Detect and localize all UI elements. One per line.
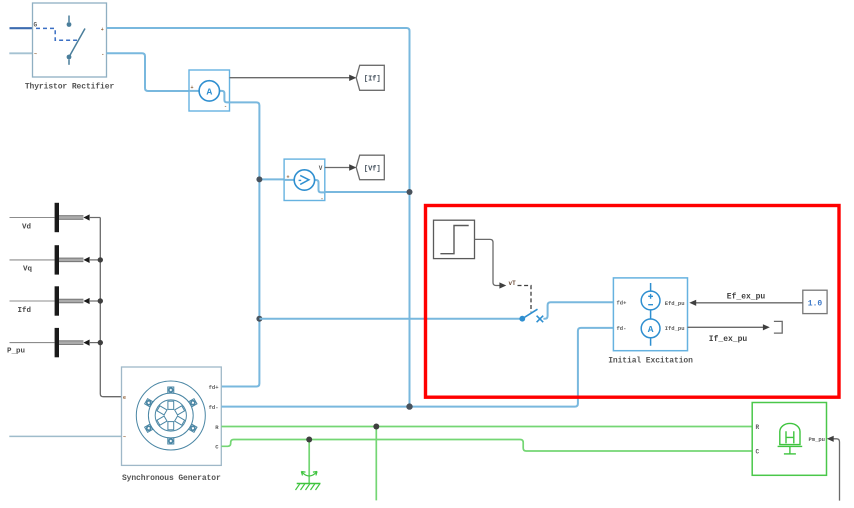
- node: C wire junction: [306, 437, 312, 443]
- node: R wire junction: [373, 424, 379, 430]
- wire: dashed control into breaker: [518, 286, 532, 313]
- initial excitation block: [613, 278, 687, 351]
- svg-text:-: -: [224, 104, 227, 110]
- wire: measurement bus vertical to generator e port: [100, 218, 121, 397]
- node: voltmeter to DC bus junction: [407, 189, 413, 195]
- wire: branch to voltmeter input: [259, 178, 284, 180]
- node: Ifd tap junction: [98, 298, 103, 303]
- label: Synchronous Generator: [122, 474, 221, 483]
- goto tag Vf: [356, 155, 384, 180]
- mechanical rotational reference ground: [296, 472, 321, 491]
- wire: thyristor + output to vertical bus node: [107, 28, 410, 407]
- wire: voltmeter - output to vertical bus node: [325, 191, 410, 193]
- wire: breaker to initial excitation fd+: [543, 302, 613, 318]
- wire: ammeter - output down to voltmeter branch: [221, 102, 259, 386]
- wire: AC input to Thyristor Rectifier: [9, 52, 32, 54]
- svg-text:Ifd: Ifd: [18, 307, 32, 315]
- constant block 1.0: [803, 290, 827, 313]
- label: Thyristor Rectifier: [25, 83, 115, 92]
- wire: generator C port to turbine C: [221, 440, 752, 452]
- bus tap P_pu: [7, 328, 100, 357]
- svg-text:Vq: Vq: [23, 266, 32, 274]
- svg-text:fd-: fd-: [617, 325, 627, 332]
- voltmeter block: [284, 159, 325, 202]
- svg-text:Pm_pu: Pm_pu: [808, 436, 825, 443]
- wire: voltmeter V output to goto Vf: [325, 164, 357, 170]
- wire: step output to breaker control vT: [475, 239, 517, 288]
- svg-text:-: -: [101, 52, 104, 58]
- wire: branch to breaker pole: [259, 318, 520, 320]
- node: fd+ branch junction to breaker: [256, 316, 262, 322]
- svg-text:Ef_ex_pu: Ef_ex_pu: [727, 293, 766, 302]
- svg-text:[Vf]: [Vf]: [364, 165, 381, 173]
- svg-text:e: e: [123, 395, 126, 401]
- svg-text:[If]: [If]: [364, 76, 381, 84]
- wire: Ifd_pu output to terminator If_ex_pu: [688, 324, 770, 344]
- node: Vq tap junction: [98, 257, 103, 262]
- synchronous generator block: [122, 367, 222, 465]
- turbine block H: [752, 403, 826, 476]
- svg-text:-: -: [321, 196, 324, 202]
- svg-text:Thyristor Rectifier: Thyristor Rectifier: [25, 83, 115, 92]
- wire: C net branch to rotational reference: [308, 440, 310, 484]
- terminator: [774, 321, 782, 333]
- label: Initial Excitation: [608, 356, 693, 365]
- svg-text:A: A: [206, 86, 212, 97]
- svg-text:+: +: [191, 85, 194, 91]
- highlight rectangle: [426, 206, 840, 398]
- svg-text:+: +: [287, 175, 290, 181]
- svg-text:Initial Excitation: Initial Excitation: [608, 356, 693, 365]
- svg-text:Ifd_pu: Ifd_pu: [665, 325, 685, 332]
- bus tap Ifd: [10, 286, 101, 315]
- svg-text:vT: vT: [509, 280, 517, 287]
- wire: R net branch down: [375, 427, 377, 501]
- node: fd- junction with DC bus vertical: [406, 403, 412, 409]
- svg-text:If_ex_pu: If_ex_pu: [709, 335, 748, 344]
- node: P_pu tap junction: [98, 340, 103, 345]
- svg-text:fd+: fd+: [617, 300, 628, 307]
- wire: generator R port to turbine R: [221, 426, 752, 428]
- svg-text:~: ~: [34, 52, 37, 58]
- goto tag If: [356, 65, 384, 90]
- wire: stator AC input to generator: [9, 435, 121, 437]
- step source block: [434, 220, 475, 258]
- bus tap Vd: [10, 203, 101, 232]
- svg-text:fd+: fd+: [209, 384, 220, 391]
- wire: G gate input: [10, 27, 33, 29]
- svg-text:+: +: [101, 27, 104, 33]
- wire: ammeter I output to goto If: [230, 75, 357, 81]
- svg-text:P_pu: P_pu: [7, 348, 25, 356]
- breaker switch: [519, 309, 543, 322]
- bus tap Vq: [10, 245, 101, 274]
- svg-text:Synchronous Generator: Synchronous Generator: [122, 474, 221, 483]
- svg-text:V: V: [319, 165, 323, 172]
- svg-text:G: G: [34, 22, 38, 29]
- svg-text:C: C: [756, 449, 760, 456]
- wire: generator fd- to initial excitation fd-: [221, 328, 613, 407]
- wire: thyristor - output to ammeter: [107, 53, 190, 91]
- svg-text:~: ~: [123, 435, 126, 441]
- svg-text:A: A: [648, 324, 654, 335]
- svg-text:Efd_pu: Efd_pu: [665, 300, 685, 307]
- node: ammeter/voltmeter junction: [256, 176, 262, 182]
- wire: Ef_ex_pu constant to Efd_pu input: [689, 293, 803, 306]
- thyristor rectifier block: [33, 3, 107, 77]
- svg-text:R: R: [756, 424, 760, 431]
- ammeter block: [189, 70, 230, 111]
- svg-text:1.0: 1.0: [808, 300, 823, 309]
- svg-text:Vd: Vd: [22, 223, 31, 231]
- wire: Pm_pu input: [827, 436, 840, 501]
- svg-text:fd-: fd-: [209, 404, 219, 411]
